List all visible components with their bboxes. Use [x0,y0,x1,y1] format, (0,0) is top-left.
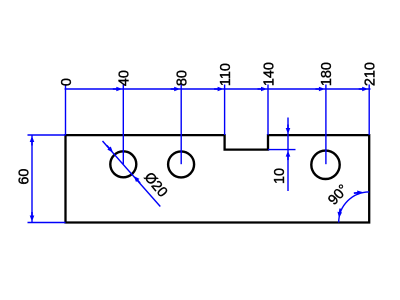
svg-text:40: 40 [117,70,133,86]
extension line notch bottom [268,149,296,151]
extension line tick 140 (to notch right) [267,85,269,136]
part outline [66,135,370,222]
arrow lower (Ø20 leader) [132,174,142,184]
extension line tick 110 (to notch left) [224,85,226,136]
svg-text:110: 110 [218,63,234,86]
svg-text:10: 10 [272,168,288,184]
extension line bottom (60 dim) [28,222,66,224]
arrow down (60 dim bottom) [30,212,35,222]
extension line top (60 dim) [28,134,66,136]
left dimension line (60) [31,135,33,223]
svg-text:80: 80 [175,70,191,86]
arrow down (10 dim, above top edge) [286,125,291,135]
arrow at tick 210 [359,87,369,92]
extension line tick 210 (to top-right corner) [368,85,370,136]
arrow at tick 140 [258,87,268,92]
arrow up (10 dim, below notch bottom) [286,151,291,161]
svg-text:60: 60 [16,169,32,185]
extension line tick 0 [65,85,67,136]
arrow at arc right end [354,190,364,195]
angle dimension arc (90°) [339,192,370,223]
svg-text:180: 180 [319,62,335,86]
svg-text:140: 140 [261,62,277,86]
svg-text:0: 0 [59,78,75,86]
arrow upper (Ø20 leader) [105,144,115,154]
arrow at tick 80 [171,87,181,92]
hole H1 (left, Ø20) [110,151,136,177]
extension line tick 180 (to hole H3 center) [325,85,327,165]
hole H2 (middle, Ø20) [168,151,194,177]
extension line tick 40 (to hole H1 center) [122,85,124,165]
diameter leader line (Ø20 through hole H1) [103,141,161,207]
notch depth dimension line (10) [287,118,289,192]
arrow at tick 40 [113,87,123,92]
extension line tick 80 (to hole H2 center) [180,85,182,165]
arrow at tick 180 [315,87,325,92]
arrow up (60 dim top) [30,136,35,146]
arrow at arc bottom end [337,208,343,218]
svg-text:Ø20: Ø20 [141,169,171,200]
top dimension line (baseline 0..210) [65,88,371,90]
hole H3 (right, Ø20) [311,151,339,179]
arrow at tick 110 [214,87,224,92]
svg-text:210: 210 [363,62,379,86]
svg-text:90°: 90° [325,182,352,209]
